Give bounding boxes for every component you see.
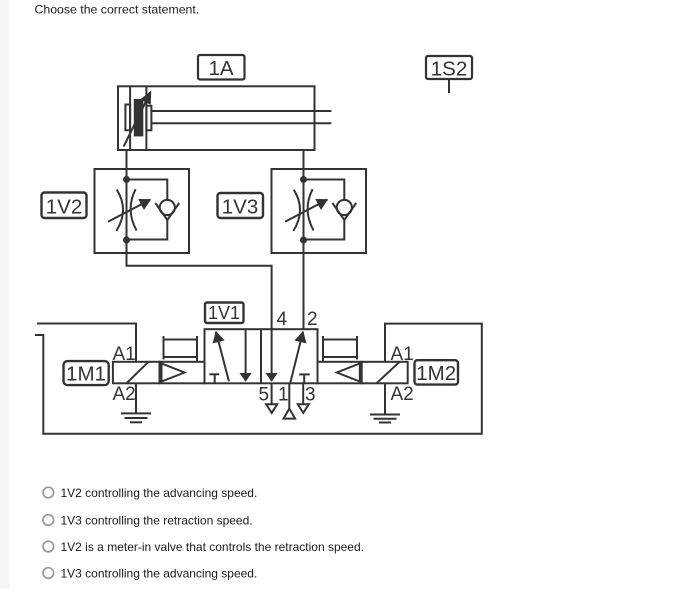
manual override right	[323, 336, 357, 362]
wire 1V3 to valve port 2	[303, 240, 305, 329]
svg-text:Choose the correct statement.: Choose the correct statement.	[35, 3, 200, 17]
wire cylinder right port to 1V3	[303, 150, 305, 180]
svg-text:1V1: 1V1	[208, 303, 240, 323]
svg-text:1V2 controlling the advancing: 1V2 controlling the advancing speed.	[61, 486, 258, 500]
answer option radio 3	[43, 541, 54, 552]
port 5 line	[271, 383, 273, 404]
node 1V3 top junction	[300, 176, 307, 183]
flow control valve 1V2	[95, 169, 190, 253]
valve 1V1 right square down arrow port 4 to 5	[271, 329, 273, 381]
svg-text:1M2: 1M2	[416, 362, 456, 385]
svg-text:A2: A2	[113, 384, 136, 405]
solenoid 1M2 box	[362, 362, 408, 384]
pilot box right	[318, 362, 362, 384]
cylinder 1A body	[118, 86, 315, 150]
valve 1V1 left square down arrow	[245, 329, 247, 381]
svg-text:A2: A2	[391, 384, 414, 405]
ground 1M1	[121, 413, 151, 422]
port 3 exhaust triangle	[298, 404, 309, 413]
svg-text:1V3 controlling the retraction: 1V3 controlling the retraction speed.	[61, 514, 253, 528]
wire 1M1 A2 to ground	[135, 383, 137, 413]
pilot box left	[160, 362, 205, 384]
label 1V2	[42, 193, 87, 219]
wire to 1M2 terminal A1 around frame	[35, 324, 482, 434]
flow control valve 1V3	[272, 169, 367, 253]
svg-text:1V2 is a meter-in valve that c: 1V2 is a meter-in valve that controls th…	[61, 540, 365, 554]
limit switch 1S2 stub	[448, 80, 450, 93]
port 5 exhaust triangle	[266, 404, 277, 413]
wire to 1M1 terminal A1	[37, 324, 136, 362]
svg-text:1V2: 1V2	[46, 196, 82, 219]
svg-text:3: 3	[305, 385, 316, 406]
label 1A	[198, 55, 245, 80]
port 1 line	[288, 383, 290, 408]
ground 1M2	[370, 415, 400, 423]
port 1 supply triangle	[284, 409, 296, 419]
port 3 line	[302, 383, 304, 404]
valve 1V1 position divider	[260, 329, 262, 383]
answer option radio 2	[43, 515, 54, 526]
wire cylinder left port to 1V2	[126, 150, 128, 180]
answer option radio 4	[43, 568, 54, 579]
manual override left	[164, 336, 198, 362]
answer option radio 1	[43, 487, 54, 498]
label 1S2	[426, 56, 472, 81]
valve 1V1 left square flow arrow diagonal	[216, 332, 229, 382]
svg-text:1S2: 1S2	[431, 58, 467, 81]
wire 1V2 to valve port 4	[127, 240, 272, 329]
svg-text:1: 1	[278, 385, 289, 406]
svg-text:A1: A1	[391, 344, 414, 365]
svg-text:1V3 controlling the advancing: 1V3 controlling the advancing speed.	[61, 567, 258, 581]
cylinder 1A right cushion spud	[146, 106, 151, 131]
pilot triangle left	[162, 364, 185, 382]
svg-text:5: 5	[259, 385, 270, 406]
cylinder 1A piston	[130, 86, 146, 150]
node 1V3 bottom junction	[300, 237, 307, 244]
valve 1V1 right square blocked port T	[299, 374, 310, 383]
cylinder 1A left cushion spud	[125, 105, 130, 131]
cylinder 1A piston magnet bar	[134, 99, 144, 136]
svg-text:2: 2	[307, 309, 318, 330]
label 1M2	[415, 360, 459, 385]
svg-text:1M1: 1M1	[66, 363, 106, 386]
valve 1V1 left square blocked port T	[209, 374, 219, 383]
wire 1M2 A2 to ground	[384, 383, 386, 413]
node 1V2 bottom junction	[123, 237, 130, 244]
solenoid 1M1 box	[113, 362, 160, 384]
node 1V2 top junction	[123, 176, 130, 183]
svg-text:1V3: 1V3	[222, 196, 258, 219]
label 1V1	[205, 303, 244, 324]
svg-text:1A: 1A	[208, 57, 233, 80]
cylinder 1A cushion adjust arrow	[124, 92, 151, 147]
pilot triangle right	[337, 364, 360, 382]
solenoid 1M2 diagonal	[377, 362, 400, 384]
valve 1V1 right square flow arrow 1 to 2	[290, 332, 303, 383]
label 1V3	[218, 193, 264, 219]
svg-text:4: 4	[277, 309, 288, 330]
svg-text:A1: A1	[113, 344, 136, 365]
valve 1V1 body	[205, 329, 318, 383]
cylinder 1A piston rod	[151, 111, 331, 123]
solenoid 1M1 diagonal	[127, 362, 149, 384]
label 1M1	[64, 361, 109, 385]
